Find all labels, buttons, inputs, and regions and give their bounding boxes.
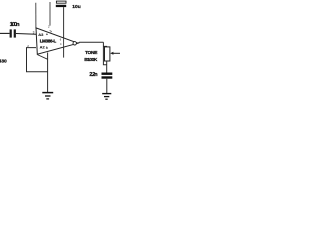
svg-text:TONE: TONE [85,50,98,56]
svg-text:10u: 10u [72,4,80,10]
svg-text:A3: A3 [38,32,44,37]
svg-text:B100K: B100K [84,57,97,63]
wire pot bottom to C3 [106,61,108,73]
wire C3 to ground [106,79,108,93]
capacitor C3 2.2n plates [102,73,113,75]
svg-text:A2: A2 [40,45,46,50]
output bubble pin5 [73,42,76,45]
pin line 2 vertical [49,2,51,26]
pin stub top-left (pin 1) [35,3,37,29]
capacitor C1 100n plates [10,29,12,37]
wire C1 to op-amp pin3 [16,33,36,36]
capacitor C2 10u polarized top plate [56,1,66,3]
potentiometer wiper arrow [113,52,120,54]
ground G2 [102,93,111,95]
svg-text:100n: 100n [10,22,20,28]
capacitor C2 10u bottom plate [56,5,66,7]
polarity tick on op-amp top edge [50,31,52,34]
svg-text:430: 430 [0,59,7,65]
svg-text:±: ± [46,45,48,49]
svg-text:2.2n: 2.2n [89,72,97,78]
wire pin4 down to ground [47,53,49,93]
wire jog to pot top [103,45,106,48]
svg-text:3: 3 [33,31,35,35]
op-amp U1 LM386 triangle [36,28,78,54]
svg-text:LM386-L: LM386-L [40,38,57,43]
wire input left of C1 [0,32,10,34]
wire pin2 loop: left, down, bottom to ground line [27,48,48,72]
wire output from pin5 [78,41,103,44]
ground G1 [42,92,53,94]
wire C2 down through op-amp (pins 6/4) [63,7,65,58]
diagonal wire from triangle corner to ground line [37,55,47,60]
svg-text:+: + [46,32,48,36]
wire output down right side [103,42,106,65]
wire pins 6/4 inside op-amp redrawn [63,39,65,49]
potentiometer R2 body [105,47,110,61]
